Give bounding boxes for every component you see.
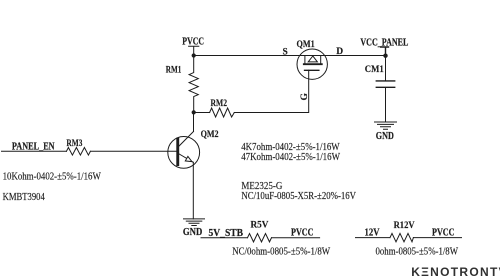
svg-text:KΞNOTRONTV: KΞNOTRONTV	[411, 265, 500, 279]
node junction at VCC_PANEL	[383, 54, 387, 58]
svg-text:R5V: R5V	[251, 221, 269, 231]
svg-text:KMBT3904: KMBT3904	[3, 191, 46, 203]
wire 5V_STB to R5V	[201, 237, 248, 239]
svg-text:10Kohm-0402-±5%-1/16W: 10Kohm-0402-±5%-1/16W	[3, 171, 102, 183]
svg-text:R12V: R12V	[394, 221, 415, 231]
wire RM3 to QM2 base	[90, 150, 176, 152]
svg-text:NC/10uF-0805-X5R-±20%-16V: NC/10uF-0805-X5R-±20%-16V	[241, 190, 356, 202]
svg-text:PVCC: PVCC	[432, 228, 455, 239]
svg-text:PVCC: PVCC	[291, 228, 314, 239]
node junction at PVCC rail	[192, 53, 196, 57]
wire PANEL_EN to RM3	[2, 150, 67, 152]
svg-text:QM2: QM2	[201, 130, 219, 140]
node junction RM1/RM2/QM2 collector	[192, 110, 196, 114]
svg-text:47Kohm-0402-±5%-1/16W: 47Kohm-0402-±5%-1/16W	[241, 151, 340, 163]
svg-text:0ohm-0805-±5%-1/8W: 0ohm-0805-±5%-1/8W	[376, 245, 459, 257]
svg-text:RM1: RM1	[166, 65, 182, 75]
wire QM2 collector to junction	[193, 112, 195, 131]
svg-text:VCC_PANEL: VCC_PANEL	[360, 37, 408, 48]
transistor QM1 (P-MOSFET)	[297, 49, 327, 79]
ground under QM2	[183, 219, 205, 238]
svg-text:GND: GND	[376, 131, 394, 142]
capacitor CM1	[365, 56, 395, 122]
transistor QM2 (NPN)	[168, 132, 200, 169]
svg-text:CM1: CM1	[365, 65, 384, 75]
wire RM2 to junction	[194, 112, 210, 114]
svg-text:12V: 12V	[365, 228, 381, 239]
svg-text:QM1: QM1	[297, 40, 315, 50]
wire R5V to PVCC	[272, 237, 320, 239]
resistor RM1	[166, 56, 198, 113]
wire 12V to R12V	[356, 237, 391, 239]
ground under CM1	[375, 122, 397, 142]
svg-text:RM2: RM2	[211, 99, 228, 109]
resistor RM2	[210, 99, 235, 117]
resistor R12V	[390, 221, 415, 242]
svg-text:S: S	[283, 47, 288, 57]
svg-text:GND: GND	[183, 227, 202, 238]
power symbol PVCC	[182, 37, 204, 56]
wire R12V to PVCC	[413, 237, 461, 239]
wire top rail PVCC to VCC_PANEL node	[194, 55, 386, 57]
svg-text:NC/0ohm-0805-±5%-1/8W: NC/0ohm-0805-±5%-1/8W	[232, 245, 331, 257]
wire QM1 gate to RM2	[234, 70, 308, 112]
wire QM2 emitter to ground	[192, 162, 194, 219]
power symbol VCC_PANEL	[360, 37, 408, 55]
resistor R5V	[248, 221, 272, 242]
svg-text:PVCC: PVCC	[182, 37, 204, 48]
resistor RM3	[66, 139, 90, 155]
svg-text:D: D	[336, 47, 343, 57]
svg-text:RM3: RM3	[66, 139, 82, 149]
